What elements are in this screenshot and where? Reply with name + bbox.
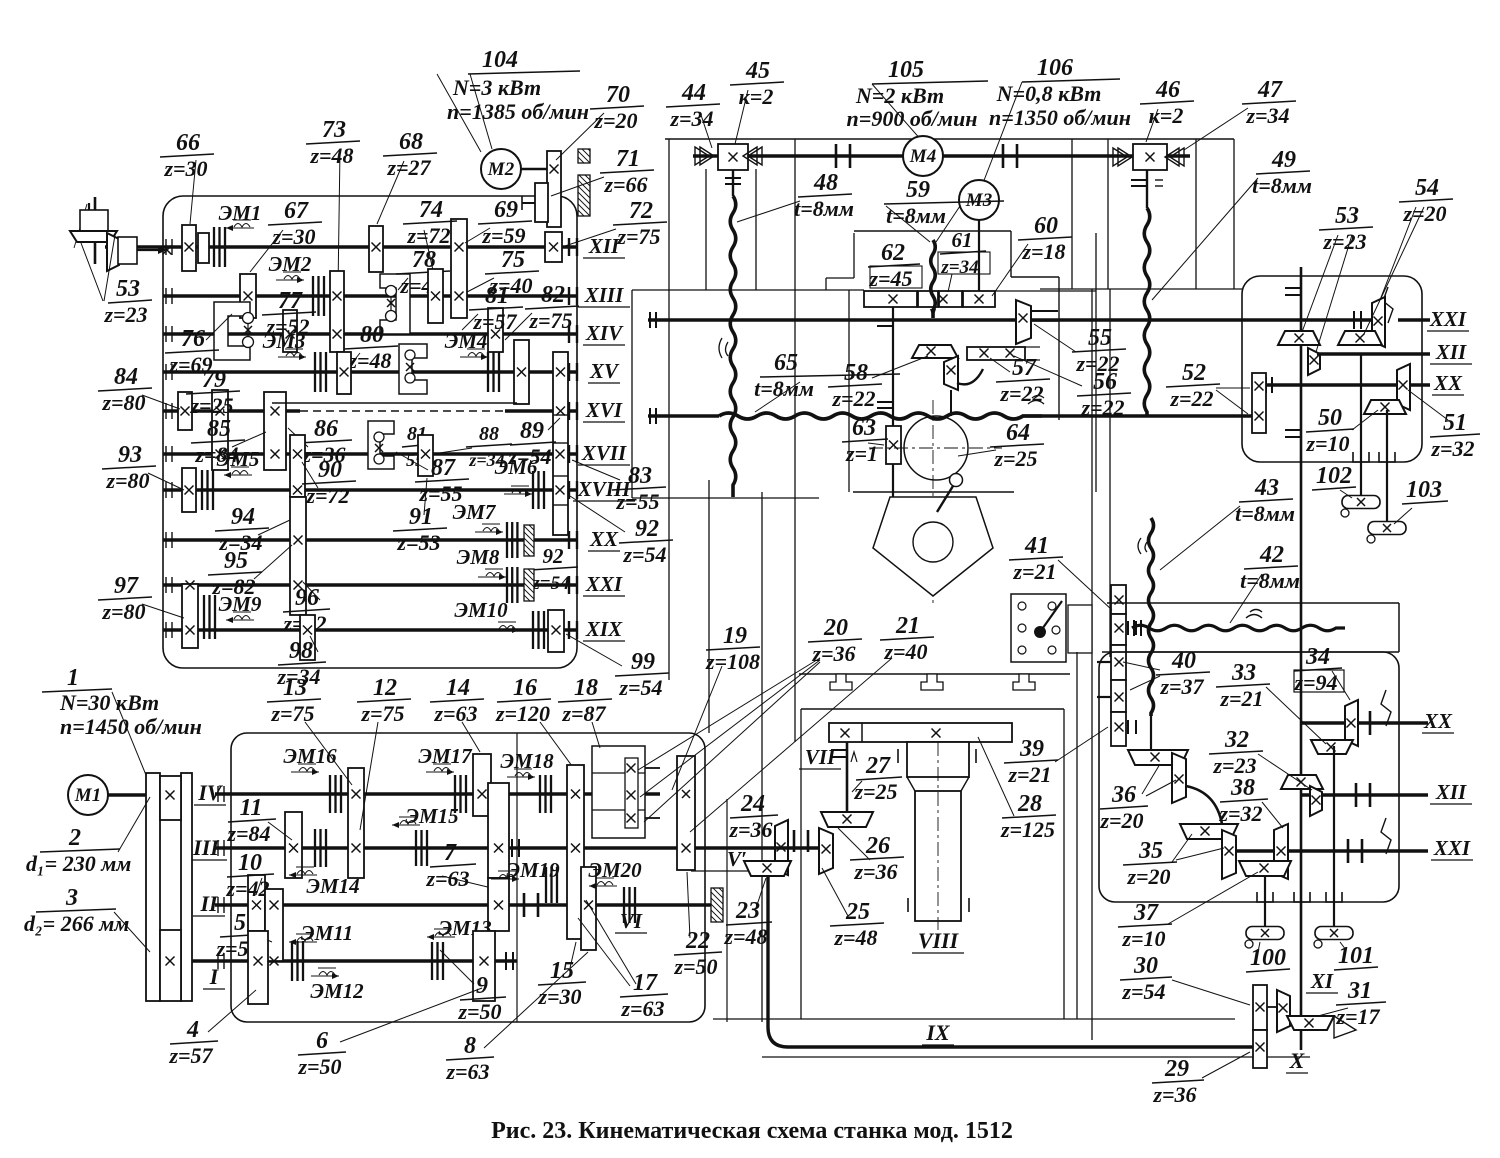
svg-text:58: 58: [844, 360, 868, 386]
svg-text:z=53: z=53: [396, 530, 440, 555]
gear 45 k2: [718, 144, 748, 170]
feed gear column: [1111, 585, 1126, 614]
gear 29: [1253, 1030, 1267, 1068]
label 38 z=32: [1218, 775, 1268, 826]
svg-text:z=87: z=87: [561, 701, 606, 726]
svg-text:7: 7: [444, 840, 457, 866]
clutch label ЭМ12: [310, 968, 364, 1003]
spring mark 65: [1028, 396, 1044, 405]
svg-text:z=75: z=75: [528, 308, 572, 333]
center lines 64: [869, 447, 1002, 449]
svg-text:z=27: z=27: [386, 155, 431, 180]
belt right: [181, 773, 192, 1001]
label 75 z=40: [485, 247, 539, 298]
bevel arrows 44b: [743, 147, 762, 165]
svg-text:z=72: z=72: [305, 483, 349, 508]
svg-text:XX: XX: [1433, 371, 1463, 395]
clutch EM18: [540, 775, 551, 813]
gear 61: [939, 291, 962, 307]
svg-text:ЭМ7: ЭМ7: [453, 500, 497, 524]
gear 6: [473, 931, 495, 1001]
svg-text:90: 90: [318, 457, 342, 483]
clutch EM4: [488, 352, 499, 392]
pentagon inner circle: [913, 522, 953, 562]
svg-text:98: 98: [289, 638, 313, 664]
bevel 23: [744, 861, 791, 876]
svg-text:106: 106: [1037, 55, 1073, 81]
svg-text:z=32: z=32: [1218, 801, 1262, 826]
label 97 z=80: [98, 573, 152, 624]
svg-text:XII: XII: [1435, 340, 1467, 364]
gear 60: [963, 291, 995, 307]
svg-text:z=1: z=1: [845, 441, 878, 466]
svg-text:76: 76: [181, 326, 205, 352]
svg-text:t=8мм: t=8мм: [794, 196, 854, 221]
screw 49: [1146, 170, 1148, 208]
screw 59 wavy: [931, 240, 936, 318]
label 26 z=36: [850, 833, 904, 884]
motor М2: [481, 149, 521, 189]
wall VI: [711, 888, 723, 922]
worm wheel 64: [904, 416, 968, 480]
label 66 z=30: [160, 130, 214, 181]
hatched wall EM7: [524, 525, 534, 556]
gear 52: [1252, 373, 1266, 433]
svg-text:z=50: z=50: [297, 1054, 341, 1079]
label 77 z=52: [262, 288, 316, 339]
svg-text:XIII: XIII: [584, 283, 624, 307]
label 60 z=18: [1018, 213, 1072, 264]
svg-text:3: 3: [65, 885, 78, 911]
bevel 50: [1364, 400, 1406, 414]
wall mount M2: [578, 149, 590, 163]
label 51 z=32: [1430, 410, 1480, 461]
svg-text:XI: XI: [1310, 969, 1334, 993]
svg-text:23: 23: [735, 898, 760, 924]
label 18 z=87: [558, 675, 612, 726]
svg-text:93: 93: [118, 442, 142, 468]
shaft 71 stub: [522, 202, 535, 204]
svg-text:М4: М4: [909, 146, 936, 167]
gear 71: [535, 183, 548, 222]
svg-text:ЭМ8: ЭМ8: [457, 545, 500, 569]
bevel 58 pair: [912, 345, 958, 358]
screw 63 shaft: [892, 307, 894, 497]
shaft XIX line: [163, 628, 577, 632]
shaft M2: [521, 168, 547, 171]
svg-text:z=66: z=66: [603, 172, 647, 197]
label 53 z=23: [1319, 203, 1373, 254]
bevel 27: [821, 812, 873, 827]
svg-text:87: 87: [431, 455, 456, 481]
svg-text:46: 46: [1155, 77, 1180, 103]
svg-text:VIII: VIII: [918, 928, 960, 953]
shaft XII stub: [568, 238, 570, 256]
clutch EM17: [455, 775, 466, 813]
svg-text:25: 25: [845, 899, 870, 925]
gear 57-56 row: [967, 347, 1025, 360]
svg-text:70: 70: [606, 82, 630, 108]
shaft II-VI line: [215, 903, 711, 907]
svg-text:VII: VII: [805, 745, 836, 769]
shaft IX: [788, 1045, 1253, 1049]
vert shaft 100: [1264, 873, 1266, 927]
label 46 к=2: [1140, 77, 1194, 128]
label 72 z=75: [613, 198, 667, 249]
label 3 d2: [36, 885, 116, 912]
svg-text:85: 85: [207, 416, 231, 442]
svg-text:104: 104: [482, 47, 518, 73]
coupling M4 right: [1002, 144, 1005, 168]
svg-text:N=0,8 кВт: N=0,8 кВт: [996, 81, 1102, 106]
svg-text:z=22: z=22: [1169, 386, 1213, 411]
clutch label ЭМ10: [454, 598, 519, 633]
shaft 102 vert: [1360, 354, 1362, 496]
label 9 z=50: [457, 973, 506, 1024]
svg-text:z=25: z=25: [993, 446, 1037, 471]
label shaft I: [203, 964, 225, 989]
svg-text:z=21: z=21: [1219, 686, 1263, 711]
clutch EM1: [214, 227, 225, 267]
svg-text:69: 69: [494, 197, 518, 223]
label 24 z=36: [728, 791, 778, 842]
feed screw 65: [648, 414, 719, 418]
svg-text:Рис. 23. Кинематическая схема: Рис. 23. Кинематическая схема станка мод…: [491, 1118, 1013, 1144]
svg-text:36: 36: [1111, 782, 1136, 808]
shaft XV line: [163, 370, 577, 374]
clutch label ЭМ1: [219, 201, 262, 231]
svg-text:к=2: к=2: [1149, 103, 1184, 128]
label 68 z=27: [383, 129, 437, 180]
fork bracket 80: [399, 344, 427, 394]
svg-text:88: 88: [479, 423, 499, 445]
svg-text:z=63: z=63: [620, 996, 664, 1021]
svg-text:z=36: z=36: [728, 817, 772, 842]
label 100: [1246, 945, 1290, 972]
pentagon pedestal: [873, 497, 993, 596]
clutch EM5: [202, 470, 213, 510]
svg-text:z=59: z=59: [481, 223, 525, 248]
svg-text:33: 33: [1231, 660, 1256, 686]
svg-text:z=30: z=30: [163, 156, 207, 181]
shaft XII bottom: [1302, 793, 1428, 797]
svg-text:z=50: z=50: [673, 954, 717, 979]
label 12 z=75: [357, 675, 411, 726]
svg-text:71: 71: [616, 146, 640, 172]
svg-text:I: I: [209, 964, 220, 989]
lever: [950, 474, 963, 487]
svg-text:z=22: z=22: [999, 381, 1043, 406]
label shaft VII: [799, 745, 841, 769]
elbow 35-36: [1186, 786, 1222, 824]
svg-text:d₁= 230 мм: d₁= 230 мм: [26, 851, 131, 876]
label 79 z=25: [186, 367, 240, 418]
svg-text:65: 65: [774, 350, 798, 376]
label 61 z=34: [940, 228, 986, 278]
svg-text:32: 32: [1224, 727, 1249, 753]
label 83 z=55: [612, 463, 666, 514]
svg-text:t=8мм: t=8мм: [1240, 568, 1300, 593]
svg-text:XVII: XVII: [581, 441, 627, 465]
label 4 z=57: [168, 1017, 218, 1068]
svg-text:16: 16: [513, 675, 537, 701]
label 47 z=34: [1242, 77, 1296, 128]
label shaft VIII: [912, 928, 964, 953]
svg-text:z=34: z=34: [940, 257, 978, 278]
svg-text:z=21: z=21: [1007, 762, 1051, 787]
svg-text:XVI: XVI: [585, 398, 623, 422]
label 23 z=48: [723, 898, 772, 949]
svg-text:N=2 кВт: N=2 кВт: [855, 83, 944, 108]
svg-text:43: 43: [1254, 475, 1279, 501]
shaft to IX elbow: [768, 876, 788, 1047]
svg-text:84: 84: [114, 364, 138, 390]
svg-text:z=34: z=34: [669, 106, 713, 131]
svg-text:42: 42: [1259, 542, 1284, 568]
svg-text:n=900 об/мин: n=900 об/мин: [847, 106, 978, 131]
shaft I line: [215, 959, 517, 963]
svg-text:z=36: z=36: [1152, 1082, 1196, 1107]
svg-text:102: 102: [1316, 463, 1352, 489]
label shaft VI: [615, 909, 647, 933]
label 41 z=21: [1009, 533, 1063, 584]
svg-text:60: 60: [1034, 213, 1058, 239]
shaft M4 line: [693, 154, 1190, 158]
svg-text:86: 86: [314, 416, 338, 442]
svg-text:51: 51: [1443, 410, 1467, 436]
svg-text:92: 92: [635, 516, 659, 542]
label 102: [1312, 463, 1356, 490]
bevel 32 pair: [1281, 775, 1323, 789]
svg-text:2: 2: [68, 825, 81, 851]
clutch EM2: [313, 276, 324, 316]
shaft XVI line: [163, 409, 300, 413]
callout 1 motor: [42, 665, 112, 692]
nut 103: [1367, 522, 1406, 544]
label 20 z=36: [808, 615, 862, 666]
svg-text:М3: М3: [965, 190, 992, 211]
svg-text:103: 103: [1406, 477, 1442, 503]
svg-text:24: 24: [740, 791, 765, 817]
label shaft XX right-top: [1432, 371, 1464, 395]
label 67 z=30: [268, 198, 322, 249]
gear 10: [248, 875, 265, 931]
svg-text:44: 44: [681, 80, 706, 106]
svg-text:68: 68: [399, 129, 423, 155]
label 49 t=8мм: [1252, 147, 1312, 198]
spindle head top box: [854, 230, 1011, 232]
clutch label ЭМ16: [283, 744, 337, 775]
feed gearbox housing (bottom-left): [231, 733, 705, 1022]
svg-text:5: 5: [234, 910, 246, 936]
svg-text:XX: XX: [1423, 709, 1453, 733]
label shaft XVIII: [573, 477, 635, 501]
left feed box: [631, 290, 633, 498]
label 95 z=82: [208, 548, 262, 599]
label 14 z=63: [430, 675, 484, 726]
label 6 z=50: [297, 1028, 346, 1079]
clutch label ЭМ4: [445, 329, 488, 360]
clutch label ЭМ11: [289, 921, 353, 945]
clutch label ЭМ7: [453, 500, 503, 535]
clutch EM16: [330, 775, 341, 813]
svg-text:66: 66: [176, 130, 200, 156]
shaft XIII line: [163, 294, 577, 298]
svg-text:z=54: z=54: [531, 573, 569, 594]
motor М3: [959, 180, 999, 220]
clutch label ЭМ5: [217, 447, 260, 478]
motor М4: [903, 136, 943, 176]
svg-text:t=8мм: t=8мм: [754, 376, 814, 401]
label 88 z=34: [466, 423, 512, 470]
label 37 z=10: [1118, 900, 1172, 951]
label 33 z=21: [1216, 660, 1270, 711]
svg-text:z=57: z=57: [168, 1043, 213, 1068]
gear 7 low: [488, 878, 509, 931]
svg-text:XII: XII: [588, 234, 620, 258]
shaft III line: [215, 846, 819, 850]
label 5 z=56: [215, 910, 266, 961]
bevel 34: [1345, 700, 1358, 746]
svg-text:81: 81: [485, 283, 509, 309]
motor М1: [68, 775, 108, 815]
label 99 z=54: [615, 649, 669, 700]
shaft XII line: [105, 245, 577, 249]
svg-text:10: 10: [238, 850, 262, 876]
svg-text:22: 22: [685, 928, 710, 954]
gear 82b: [514, 340, 529, 404]
svg-text:54: 54: [1415, 175, 1439, 201]
svg-text:17: 17: [633, 970, 658, 996]
label shaft XII: [583, 234, 625, 258]
guide pad 2: [921, 674, 943, 690]
svg-text:31: 31: [1347, 978, 1372, 1004]
long shaft XXI-feed: [648, 318, 1385, 322]
label 32 z=23: [1209, 727, 1263, 778]
label shaft XVII: [578, 441, 630, 465]
bearing cups bottom-right box: [1257, 892, 1273, 902]
fork bracket 78: [380, 274, 410, 334]
svg-text:z=25: z=25: [189, 393, 233, 418]
shaft break XXI: [1383, 287, 1393, 323]
clutch label ЭМ19: [491, 858, 560, 882]
gear 11: [285, 812, 302, 878]
label 21 z=40: [880, 613, 934, 664]
label 16 z=120: [495, 675, 551, 726]
label 92 z=54 b: [530, 544, 578, 594]
svg-text:z=32: z=32: [1430, 436, 1474, 461]
svg-text:67: 67: [284, 198, 309, 224]
svg-text:z=36: z=36: [853, 859, 897, 884]
gear 85-86 col: [264, 392, 286, 470]
svg-text:11: 11: [240, 795, 263, 821]
label shaft XXI bottom-right: [1431, 836, 1473, 860]
label 40 z=37: [1156, 648, 1210, 699]
shaft XVII stub: [568, 445, 570, 463]
coupling I: [505, 952, 507, 970]
label 31 z=17: [1335, 978, 1386, 1029]
svg-text:28: 28: [1017, 791, 1042, 817]
svg-text:29: 29: [1164, 1056, 1189, 1082]
label 39 z=21: [1004, 736, 1058, 787]
clutch label ЭМ8: [457, 545, 506, 580]
shaft 103 vert: [1386, 410, 1388, 522]
label 81 55 small: [402, 423, 432, 470]
bed bottom line: [762, 1056, 1310, 1058]
screw 48: [732, 170, 734, 196]
svg-text:V′: V′: [727, 847, 747, 871]
shaft XIX stub: [568, 621, 570, 639]
svg-text:z=17: z=17: [1335, 1004, 1380, 1029]
clutch EM20: [624, 887, 635, 923]
nut 100: [1245, 927, 1284, 949]
svg-text:z=75: z=75: [616, 224, 660, 249]
svg-text:z=20: z=20: [1402, 201, 1446, 226]
label 92 z=54: [619, 516, 673, 567]
label 86 z=36: [298, 416, 352, 467]
clutch EM13: [432, 942, 443, 980]
shaft XX bottom: [1302, 721, 1428, 725]
bearing cups top-right box: [1353, 452, 1369, 462]
svg-text:79: 79: [202, 367, 226, 393]
svg-text:z=22: z=22: [831, 386, 875, 411]
gear 74 lower: [428, 269, 443, 323]
gear 7 blk: [488, 783, 509, 878]
svg-text:72: 72: [629, 198, 653, 224]
partition: [516, 733, 518, 1022]
bevel 54 pair: [1372, 297, 1385, 347]
label 13 z=75: [267, 675, 321, 726]
label 78 z=43: [396, 247, 450, 298]
column top beam: [665, 138, 1234, 140]
label 55 z=22: [1072, 325, 1126, 376]
svg-text:XXI: XXI: [585, 572, 623, 596]
svg-text:XV: XV: [589, 359, 620, 383]
svg-text:z=20: z=20: [1126, 864, 1170, 889]
svg-text:z=10: z=10: [1305, 431, 1349, 456]
worm 63: [886, 426, 901, 464]
svg-text:II: II: [199, 891, 219, 916]
label shaft IX: [922, 1020, 954, 1045]
gear 4: [248, 931, 268, 1004]
gear 62: [864, 291, 917, 307]
gear 98: [300, 615, 315, 660]
svg-text:z=84: z=84: [226, 821, 270, 846]
label 70 z=20: [590, 82, 644, 133]
label 28 z=125: [1000, 791, 1056, 842]
shaft XVIII line: [163, 488, 577, 492]
label 36 z=20: [1099, 782, 1148, 833]
svg-text:45: 45: [745, 58, 770, 84]
svg-text:z=120: z=120: [495, 701, 550, 726]
input bevel pair: [70, 197, 172, 271]
label 30 z=54: [1120, 953, 1172, 1004]
svg-text:z=20: z=20: [1099, 808, 1143, 833]
label 71 z=66: [600, 146, 654, 197]
label 84 z=80: [98, 364, 152, 415]
svg-text:М1: М1: [74, 785, 101, 806]
input pulley 66: [182, 225, 196, 271]
label 17 z=63: [620, 970, 668, 1021]
svg-text:96: 96: [295, 585, 319, 611]
shaft XXI line: [163, 583, 577, 587]
guideway line: [799, 673, 1070, 675]
svg-text:27: 27: [865, 753, 891, 779]
pedestal ticks: [897, 749, 899, 763]
svg-text:95: 95: [224, 548, 248, 574]
svg-text:z=50: z=50: [457, 999, 501, 1024]
label 52 z=22: [1166, 360, 1220, 411]
